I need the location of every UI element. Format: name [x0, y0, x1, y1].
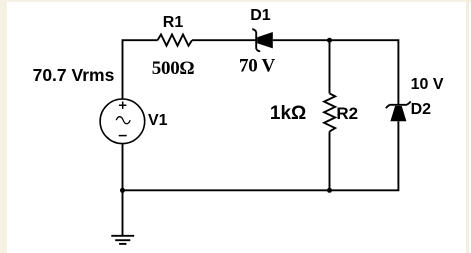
zener diode D2 (cathode bar with bent ends)	[390, 104, 407, 106]
wire: V1 top lead up to top-left corner and across to R1	[123, 40, 158, 99]
svg-text:V1: V1	[148, 112, 168, 129]
zener diode D1 (cathode bar with bent ends)	[255, 32, 257, 49]
svg-text:R1: R1	[163, 14, 184, 31]
junction node B (bottom of R2)	[327, 188, 332, 193]
wire: R2 branch top	[329, 40, 331, 93]
zener diode D2 triangle	[390, 106, 406, 121]
wire: D2 anode down to bottom-right corner and across to node B	[330, 121, 399, 190]
wire: R1 to D1 cathode	[192, 39, 256, 41]
svg-text:500Ω: 500Ω	[152, 58, 195, 79]
svg-text:R2: R2	[336, 104, 358, 123]
resistor R1	[158, 35, 193, 46]
voltage source V1 sine wave	[116, 117, 130, 124]
voltage source V1 plus sign	[119, 102, 126, 109]
wire: V1 bottom lead to ground node	[122, 144, 124, 191]
zener diode D1 triangle	[257, 32, 273, 48]
voltage source V1 minus sign	[119, 135, 127, 137]
wire: bottom rail node B to ground node	[123, 189, 330, 191]
wire: ground stem	[122, 190, 124, 236]
svg-text:10 V: 10 V	[411, 76, 444, 93]
svg-text:1kΩ: 1kΩ	[270, 103, 306, 124]
svg-text:D1: D1	[250, 7, 271, 24]
resistor R2	[324, 94, 335, 132]
ground	[111, 235, 134, 237]
junction ground node (bottom of V1)	[120, 188, 125, 193]
svg-text:D2: D2	[411, 101, 432, 118]
wire: R2 bottom to node B	[329, 131, 331, 190]
svg-text:70.7 Vrms: 70.7 Vrms	[33, 65, 115, 85]
svg-text:70 V: 70 V	[239, 55, 276, 76]
junction node A (top of R2)	[327, 38, 332, 43]
wire: node A to top-right corner	[330, 40, 399, 105]
wire: D1 anode to node A	[273, 39, 330, 41]
voltage source V1 circle	[100, 99, 145, 144]
